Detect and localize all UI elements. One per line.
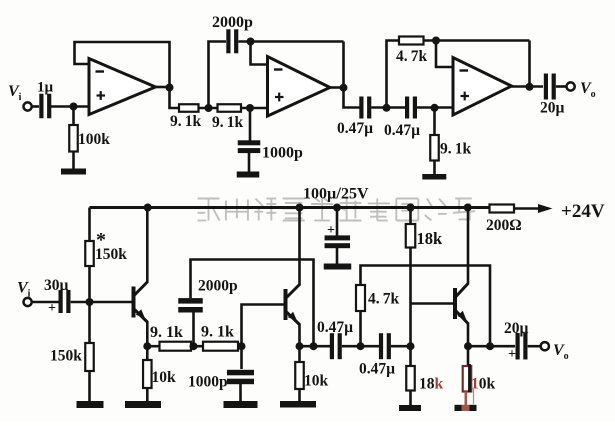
capacitor C11 0.47u (bottom second) [379, 333, 383, 359]
wire 200ohm to arrow [514, 207, 538, 210]
svg-text:18k: 18k [419, 376, 444, 393]
wire U2 output [330, 86, 344, 89]
transistor Q2 [284, 289, 288, 320]
capacitor C3 1000p [238, 140, 261, 145]
svg-text:150k: 150k [50, 348, 82, 365]
wire R12 to ground (red) [464, 392, 467, 407]
node D dot (feedback tap) [247, 38, 255, 46]
wire R1 to R2 [199, 107, 218, 110]
wire 18k upper down to node O [409, 248, 412, 347]
capacitor C9 1000p (bottom) [227, 370, 254, 376]
output terminal Vo (bottom) [541, 342, 549, 350]
wire node F to U3 - input [436, 41, 453, 68]
wire node N up to 4.7k [359, 311, 362, 346]
svg-text:9. 1k: 9. 1k [150, 324, 183, 341]
wire R7 to node K [238, 345, 242, 348]
capacitor C6 20u (top) [544, 74, 548, 100]
svg-text:2000p: 2000p [212, 14, 253, 31]
svg-text:150k: 150k [95, 246, 127, 263]
resistor 150k* (upper) [85, 241, 94, 266]
svg-text:0.47µ: 0.47µ [317, 319, 353, 336]
svg-text:10k: 10k [152, 369, 177, 386]
capacitor C13 100u electrolytic [336, 208, 339, 237]
node J dot (between bottom 9.1k) [190, 342, 198, 350]
wire Vi to C7 [31, 301, 58, 304]
wire R2 to U2 + input [241, 107, 268, 110]
node B junction dot (between 9.1k) [205, 104, 213, 112]
node rail 18k dot [407, 204, 415, 212]
resistor R12 10k (Q3, red-tinted) [463, 366, 472, 392]
resistor R2 9.1k (stage2) [218, 104, 242, 112]
node M dot (Q2 emitter) [296, 342, 304, 350]
wire C9 to ground [239, 384, 242, 402]
node N dot (between bottom 0.47u) [357, 342, 365, 350]
svg-text:+24V: +24V [561, 201, 605, 222]
wire Q1 collector to rail [146, 208, 149, 284]
wire node J up to C8 [192, 311, 195, 346]
wire node G down to R4 [433, 108, 436, 135]
wire C3 to ground [248, 153, 251, 172]
node E dot (between 0.47u) [383, 104, 391, 112]
wire Q3 base tee [411, 302, 454, 305]
capacitor C8 2000p (bottom) [178, 298, 203, 304]
wire node D to U2 - input [251, 42, 268, 65]
wire C11 to node O [391, 345, 411, 348]
wire Q2 emitter down [298, 324, 301, 347]
node K dot [238, 342, 246, 350]
wire Q3 emitter down to 10k red [467, 346, 470, 366]
ground (under 18k) [399, 405, 421, 411]
wire 10k to ground [146, 388, 149, 402]
svg-text:+: + [327, 223, 335, 238]
resistor R3 4.7k (top) [399, 37, 424, 45]
wire U1 feedback output to - input [75, 42, 170, 88]
op-amp U1 [89, 59, 156, 115]
wire Q2 collector to rail [298, 208, 301, 286]
wire R8 to ground [298, 389, 301, 402]
wire 18k lower to ground [409, 391, 412, 406]
node A junction dot [70, 103, 78, 111]
wire node B up to C2 [209, 42, 227, 109]
wire 100k to ground [72, 152, 75, 170]
wire Q3 emitter down [467, 323, 470, 347]
node Q2 collector rail dot [296, 204, 304, 212]
wire C4 to C5 [371, 106, 405, 109]
svg-text:1000p: 1000p [188, 374, 228, 391]
wire U3 output [512, 85, 544, 88]
wire node E up to R3 [387, 41, 400, 108]
node F dot [432, 37, 440, 45]
resistor R1 9.1k (stage2) [179, 104, 199, 112]
wire U3 feedback down [528, 41, 531, 87]
input terminal Vi (bottom) [24, 298, 32, 306]
node Q1 collector rail dot [144, 204, 152, 212]
transistor Q3 [453, 288, 457, 319]
capacitor C12 20u (bottom) [516, 333, 520, 360]
node O dot (Q3 bias node) [407, 342, 415, 350]
op-amp U2 [268, 57, 331, 117]
wire emitter node down to 10k [146, 346, 149, 360]
wire node A down to R 100k [72, 107, 75, 126]
svg-text:20µ: 20µ [540, 100, 565, 117]
svg-text:10k: 10k [471, 376, 496, 393]
svg-text:9. 1k: 9. 1k [212, 114, 243, 131]
wire Q1 emitter down [146, 321, 149, 346]
wire 150k* to input node [88, 266, 91, 302]
node H dot (Q1 base node) [86, 298, 94, 306]
resistor R13 200ohm [490, 205, 515, 213]
wire emitter to C12 [468, 345, 515, 348]
resistor R9 4.7k (bottom) [356, 285, 365, 311]
capacitor C10 0.47u (bottom first) [330, 333, 334, 359]
wire C10 to C11 [342, 345, 379, 348]
svg-text:100µ/25V: 100µ/25V [303, 184, 369, 203]
node L dot (feedback joins emitter) [310, 342, 318, 350]
wire Q3 collector to rail [467, 208, 470, 285]
svg-text:+: + [508, 347, 516, 362]
wire C8 up and over to Q2 emitter [191, 260, 314, 347]
wire C7 to base node [71, 301, 132, 304]
wire 4.7k up and over to Q3 emitter [361, 266, 491, 347]
svg-text:4. 7k: 4. 7k [368, 291, 399, 308]
svg-text:9. 1k: 9. 1k [440, 141, 471, 158]
wire U1 output [156, 86, 170, 89]
resistor R11 18k (lower) [406, 366, 415, 391]
ground (under Q2 10k) [280, 401, 316, 408]
wire R4 to ground [433, 161, 436, 175]
watermark gray text [198, 199, 476, 221]
wire Q2 emitter row [300, 345, 331, 348]
wire C6 to Vo terminal [556, 85, 567, 88]
capacitor C1 1u [39, 94, 43, 119]
wire C2 to U2 feedback [239, 40, 344, 43]
capacitor C4 0.47u [359, 97, 363, 119]
arrow to +24V [538, 204, 553, 213]
resistor R4 9.1k (stage3) [430, 135, 439, 161]
node U1 output dot [166, 84, 174, 92]
input terminal Vi (top) [24, 102, 32, 110]
svg-text:2000p: 2000p [198, 278, 238, 295]
node U3 output dot [526, 83, 534, 91]
wire node C down to C3 [249, 108, 252, 141]
node G dot (U3 + input) [431, 104, 439, 112]
resistor 100k [69, 125, 78, 152]
svg-text:30µ: 30µ [44, 277, 69, 294]
wire 150k lower to ground [88, 371, 91, 402]
ground (under Q3 10k, red) [455, 405, 463, 411]
svg-text:0.47µ: 0.47µ [384, 122, 420, 139]
node C dot (U2 + input) [246, 104, 254, 112]
svg-text:10k: 10k [304, 373, 329, 390]
ground (under 1000p bottom) [224, 401, 258, 408]
wire R6 to R7 [191, 345, 203, 348]
wire Vi to C1 [31, 105, 39, 108]
resistor 150k (lower) [85, 343, 94, 371]
wire U2 output down to C4 [344, 88, 360, 108]
wire node O down to 18k lower [409, 346, 412, 366]
wire C1 to op-amp U1 + input [49, 105, 89, 108]
svg-text:9. 1k: 9. 1k [170, 113, 201, 130]
node rail 100u dot [333, 204, 341, 212]
wire rail corner down to 150k* [88, 208, 91, 242]
wire C5 to U3 + input [417, 106, 453, 109]
op-amp U3 [453, 58, 512, 116]
resistor R7 9.1k (bottom second) [203, 342, 238, 351]
svg-text:4. 7k: 4. 7k [396, 48, 427, 65]
wire feedback down to U2 output [342, 42, 345, 89]
resistor R6 9.1k (bottom first) [160, 342, 192, 351]
wire rail down to 18k upper [409, 208, 412, 225]
svg-text:9. 1k: 9. 1k [201, 324, 234, 341]
svg-text:100k: 100k [78, 131, 110, 148]
wire node K up to Q2 base [242, 305, 284, 347]
svg-text:18k: 18k [417, 229, 444, 248]
capacitor C5 0.47u [405, 97, 409, 119]
+24V supply rail [90, 206, 490, 209]
svg-text:+: + [48, 301, 56, 316]
resistor R10 18k (upper) [406, 224, 416, 248]
ground (under Q1 10k) [125, 401, 161, 408]
ground (under 100u) [324, 264, 352, 270]
wire U1 output down to R1 [170, 88, 180, 109]
node P dot (Q3 emitter) [464, 342, 472, 350]
svg-text:20µ: 20µ [504, 320, 529, 337]
node U2 output dot [340, 84, 348, 92]
wire emitter node to R5 [147, 345, 159, 348]
svg-text:1000p: 1000p [262, 145, 303, 162]
node I dot (Q1 emitter) [143, 342, 151, 350]
svg-text:0.47µ: 0.47µ [359, 361, 395, 378]
transistor Q1 [132, 287, 136, 318]
ground (under 150k) [77, 401, 104, 408]
capacitor C7 30u [59, 290, 63, 313]
wire node H down to 150k lower [88, 302, 91, 343]
node Q3 collector rail dot [464, 204, 472, 212]
resistor R8 10k (Q2) [295, 362, 304, 389]
wire Q2 emitter down to 10k [298, 346, 301, 362]
svg-text:1µ: 1µ [37, 80, 54, 96]
wire node K down to C9 [240, 346, 243, 369]
ground (under 1000p top) [237, 172, 260, 178]
wire R3 to U3 feedback [424, 39, 530, 42]
svg-text:200Ω: 200Ω [486, 217, 522, 234]
wire C12 to Vo [528, 345, 542, 348]
resistor R5 10k (Q1) [143, 360, 152, 388]
output terminal Vo (top) [567, 82, 575, 90]
node feedback-join dot [486, 342, 494, 350]
ground (under R4) [422, 174, 446, 180]
ground (under 100k) [61, 169, 86, 175]
capacitor C2 2000p [226, 29, 230, 53]
svg-text:0.47µ: 0.47µ [337, 120, 373, 137]
